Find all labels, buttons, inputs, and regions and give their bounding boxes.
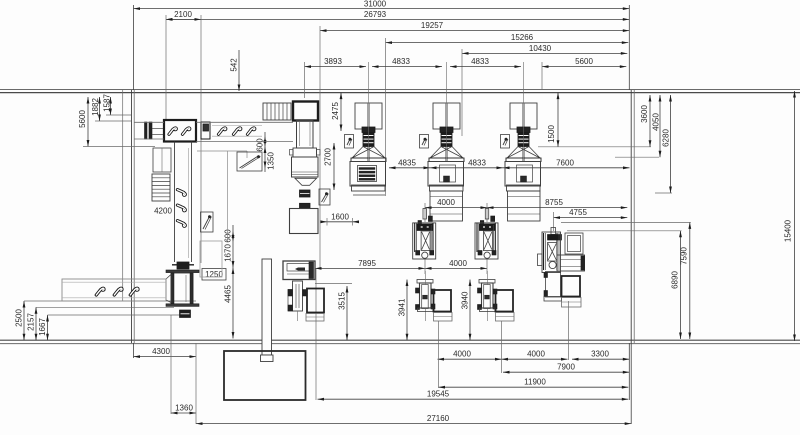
machine centerline x438	[438, 321, 440, 388]
press cluster A2	[475, 209, 498, 260]
wall bottom (double line)	[0, 340, 800, 343]
dim 6280	[655, 95, 672, 193]
machine G top unit	[283, 261, 315, 280]
extension x553 cluster C	[553, 212, 555, 231]
svg-text:3940: 3940	[460, 291, 469, 309]
dim 2100	[166, 10, 201, 21]
dim 3600	[640, 95, 652, 147]
dim 6890	[567, 231, 682, 339]
svg-text:8755: 8755	[545, 198, 563, 207]
dim 4000 clusters top	[425, 198, 487, 209]
svg-text:7895: 7895	[358, 259, 376, 268]
svg-text:31000: 31000	[364, 0, 387, 8]
extension line x385	[385, 38, 387, 196]
light bay lines right of channel	[197, 151, 247, 241]
cluster centerline x425	[424, 203, 426, 274]
dim 5600	[542, 57, 626, 68]
svg-text:3941: 3941	[397, 298, 406, 316]
svg-text:7900: 7900	[557, 363, 575, 372]
dim 7895	[315, 259, 425, 270]
label 4200	[154, 206, 172, 215]
dim 2500	[14, 301, 196, 340]
svg-text:1667: 1667	[38, 318, 47, 336]
dim 15266	[386, 33, 629, 44]
elbow block	[293, 102, 318, 121]
svg-text:2100: 2100	[174, 10, 192, 19]
dim 4835 machines	[389, 158, 430, 169]
dim 3515	[315, 284, 352, 341]
machine G vertical unit	[288, 281, 307, 321]
cluster centerline x489	[486, 203, 488, 274]
extension line x166	[165, 15, 167, 121]
machine B chute	[166, 275, 171, 303]
dim 2700	[323, 143, 335, 190]
dim 4755	[554, 208, 628, 219]
svg-text:600: 600	[223, 229, 232, 243]
svg-text:600: 600	[255, 138, 264, 152]
svg-text:4833: 4833	[471, 57, 489, 66]
dim 5600 left vertical	[78, 97, 155, 147]
dim 11900	[439, 378, 629, 389]
machine tower M1	[350, 62, 386, 195]
machine E	[478, 271, 515, 321]
dim 4833 a	[372, 57, 442, 68]
svg-text:10430: 10430	[529, 44, 552, 53]
dim 26793	[166, 10, 629, 21]
svg-text:27160: 27160	[427, 414, 450, 423]
svg-text:3893: 3893	[324, 57, 342, 66]
svg-text:4833: 4833	[392, 57, 410, 66]
ladder housing left	[153, 148, 171, 172]
dim 1667	[38, 315, 186, 340]
bracket table M3	[501, 135, 510, 149]
cluster C side arm	[557, 255, 585, 271]
dim 31000	[134, 0, 630, 10]
svg-text:4000: 4000	[449, 259, 467, 268]
machine G right square	[307, 289, 324, 313]
dim 4833 b	[450, 57, 521, 68]
svg-text:4000: 4000	[437, 198, 455, 207]
dim 3893	[305, 57, 367, 68]
machine tower M2	[428, 62, 464, 221]
extension line x462	[461, 49, 463, 136]
ladder left	[152, 174, 170, 201]
dim 4833 machines	[430, 158, 503, 169]
svg-text:1360: 1360	[175, 404, 193, 413]
dim 4000 bottom a	[438, 350, 502, 361]
dim 7600	[503, 158, 630, 169]
svg-text:2157: 2157	[26, 313, 35, 331]
dim 542 vertical	[229, 50, 240, 91]
svg-text:1250: 1250	[205, 270, 223, 279]
dim 4000 bottom b	[502, 350, 568, 361]
cluster C side unit upper	[565, 233, 583, 254]
dim 1500 vertical	[547, 93, 560, 147]
dim 1587	[102, 94, 131, 115]
dim 19545	[318, 390, 629, 401]
machine A overhead conveyor unit	[145, 120, 211, 142]
machine column below elbow	[290, 121, 321, 234]
pier column	[261, 259, 274, 362]
svg-text:3300: 3300	[591, 350, 609, 359]
dim 4300	[134, 347, 197, 358]
dim 7900	[503, 363, 629, 374]
svg-text:2500: 2500	[14, 309, 23, 327]
pit rectangle	[224, 351, 306, 400]
svg-text:5600: 5600	[78, 110, 87, 128]
dim 4050	[615, 95, 661, 157]
dim 8755	[487, 198, 627, 209]
dim 1600	[321, 212, 360, 225]
svg-text:19257: 19257	[421, 21, 444, 30]
svg-text:4200: 4200	[154, 206, 172, 215]
svg-text:3600: 3600	[640, 105, 649, 123]
hook box 1	[237, 152, 262, 171]
dim 27160	[196, 414, 631, 425]
machine centerline x501	[501, 321, 503, 373]
dim chain 600/1350 x265	[255, 132, 275, 172]
svg-text:3515: 3515	[337, 292, 346, 310]
svg-text:15400: 15400	[783, 219, 792, 242]
hook box 2	[201, 212, 214, 232]
dim 2475	[331, 93, 343, 131]
dim 1882	[91, 97, 131, 121]
vertical channel conveyor	[175, 142, 192, 263]
cluster C pallet	[562, 298, 582, 308]
press cluster A1	[413, 209, 436, 260]
channel hooks	[177, 188, 185, 228]
hook box 3	[319, 189, 330, 205]
extension line x320	[319, 26, 321, 268]
extension line x304	[304, 62, 306, 98]
svg-text:4835: 4835	[398, 158, 416, 167]
svg-text:4833: 4833	[468, 158, 486, 167]
building right edge	[629, 5, 634, 424]
svg-text:1600: 1600	[331, 212, 349, 221]
svg-text:4755: 4755	[569, 208, 587, 217]
dim 1360	[171, 315, 196, 424]
svg-text:4000: 4000	[453, 350, 471, 359]
press cluster C	[538, 228, 562, 273]
svg-text:6890: 6890	[670, 271, 679, 289]
conveyor hooks top row	[218, 128, 254, 134]
svg-text:6280: 6280	[661, 129, 670, 147]
svg-text:1587: 1587	[102, 94, 111, 112]
dim 3941	[397, 280, 408, 341]
label 1250 box	[202, 269, 226, 281]
left conveyor with hooks	[62, 279, 166, 301]
dim 7590	[561, 222, 691, 339]
bracket table M1	[345, 135, 354, 149]
svg-text:1350: 1350	[266, 152, 275, 170]
machine tower M3	[505, 62, 541, 221]
svg-text:4050: 4050	[651, 113, 660, 131]
dim 3300	[572, 350, 629, 361]
svg-text:2700: 2700	[323, 148, 332, 166]
bracket table M2	[420, 135, 429, 149]
dim 19257	[320, 21, 629, 32]
svg-text:11900: 11900	[524, 378, 546, 387]
svg-text:4000: 4000	[527, 350, 545, 359]
wall top (double line)	[0, 90, 800, 93]
machine B motor cap	[172, 262, 194, 269]
extension line x201	[200, 15, 202, 263]
machine B drum body	[166, 270, 199, 318]
reference line y147	[538, 146, 651, 148]
svg-text:4465: 4465	[223, 285, 232, 303]
svg-text:1882: 1882	[91, 98, 100, 116]
machine D	[416, 271, 453, 321]
extension x316 19545	[315, 269, 317, 400]
dim 3940	[460, 280, 471, 341]
storage bay rect	[200, 241, 222, 277]
cluster C lower neck	[544, 272, 562, 302]
machine G pallet	[306, 314, 324, 322]
svg-text:542: 542	[229, 58, 238, 72]
dim 15400 far right	[783, 91, 796, 341]
machine centerline x568	[568, 301, 570, 360]
svg-text:5600: 5600	[575, 57, 593, 66]
svg-text:1500: 1500	[547, 125, 556, 143]
svg-text:2475: 2475	[331, 102, 340, 120]
svg-text:15266: 15266	[511, 33, 534, 42]
svg-text:1670: 1670	[223, 244, 232, 262]
building left edge	[123, 5, 135, 358]
dim 2157	[26, 307, 174, 340]
dim 10430	[462, 44, 627, 55]
svg-text:19545: 19545	[427, 390, 450, 399]
conveyor band top	[134, 122, 293, 141]
svg-text:26793: 26793	[364, 10, 387, 19]
svg-text:4300: 4300	[152, 347, 170, 356]
cluster C lower square	[562, 276, 581, 297]
dim chain 600/1670/4465	[223, 225, 234, 339]
extension line x542	[541, 62, 543, 90]
svg-text:7600: 7600	[556, 158, 574, 167]
stairs top	[263, 103, 291, 120]
dim 4000 clusters bottom	[425, 259, 487, 270]
